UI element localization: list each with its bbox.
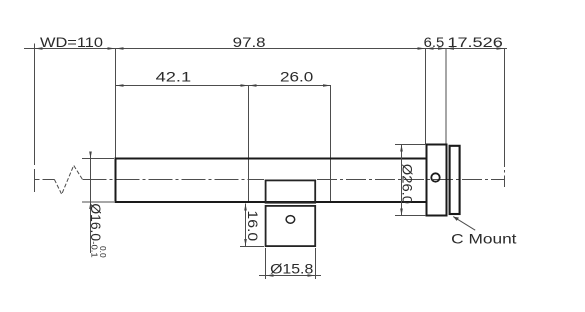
svg-text:Ø16.0: Ø16.0 [87, 203, 103, 241]
break-line zigzag on axis [54, 165, 82, 194]
arrows row 1 [35, 47, 505, 50]
16.0 arrows [244, 204, 247, 247]
centerline (optical axis) main [83, 179, 506, 181]
C-mount flange block [427, 145, 447, 216]
extension line image plane (x=504) [504, 49, 506, 188]
svg-text:WD=110: WD=110 [40, 35, 103, 50]
arrows row 2 [116, 84, 332, 87]
centerline (optical axis) left stub [35, 179, 55, 181]
dia 15.8 dimension [259, 248, 321, 279]
extension line lens front (x=115) [115, 49, 117, 159]
dia 16.0 lower tolerance -0.1 (rotated) [90, 241, 100, 258]
svg-text:17.526: 17.526 [447, 35, 502, 50]
C Mount leader line [453, 217, 475, 231]
dia 26 arrows [400, 145, 403, 216]
svg-text:26.0: 26.0 [280, 70, 313, 85]
16.0 label (rotated) [244, 210, 260, 241]
dia 16 dimension: extension lines [82, 152, 114, 254]
svg-text:-0.1: -0.1 [90, 241, 100, 258]
16.0 block dimension line [240, 204, 264, 247]
extension line WD plane (x=34) [34, 44, 36, 193]
extension line barrel step 2 (x=330.5) [330, 86, 332, 203]
svg-text:Ø15.8: Ø15.8 [270, 261, 313, 276]
dia 16.0 upper tolerance 0.0 (rotated) [98, 246, 108, 258]
focus block lower part [266, 206, 316, 246]
extension line barrel step (x=248) [248, 86, 250, 203]
dia 16.0 label (rotated) [87, 203, 103, 241]
dia 15.8 arrows [266, 274, 316, 277]
dimension line row 1 (y=48) [24, 48, 507, 50]
C Mount leader arrow [453, 217, 459, 221]
svg-text:42.1: 42.1 [156, 70, 192, 85]
focus block screw hole [286, 216, 295, 224]
svg-text:97.8: 97.8 [233, 35, 266, 50]
svg-text:C Mount: C Mount [451, 231, 517, 246]
dia 26 dimension extension lines [395, 145, 426, 216]
lens barrel body [116, 159, 427, 203]
extension line mount rear (x=446) [445, 49, 447, 145]
focus block upper part [266, 180, 316, 202]
svg-text:Ø26.0: Ø26.0 [399, 164, 415, 204]
mount set screw [431, 173, 439, 181]
dia 16 dimension arrows [89, 152, 92, 210]
dimension line row 2 (y=85) 42.1 / 26.0 [116, 85, 332, 87]
svg-text:16.0: 16.0 [244, 210, 260, 241]
C-mount thread section [450, 146, 460, 214]
dia 26.0 label (rotated) [399, 164, 415, 204]
extension line mount front (x=425.5) [425, 49, 427, 145]
